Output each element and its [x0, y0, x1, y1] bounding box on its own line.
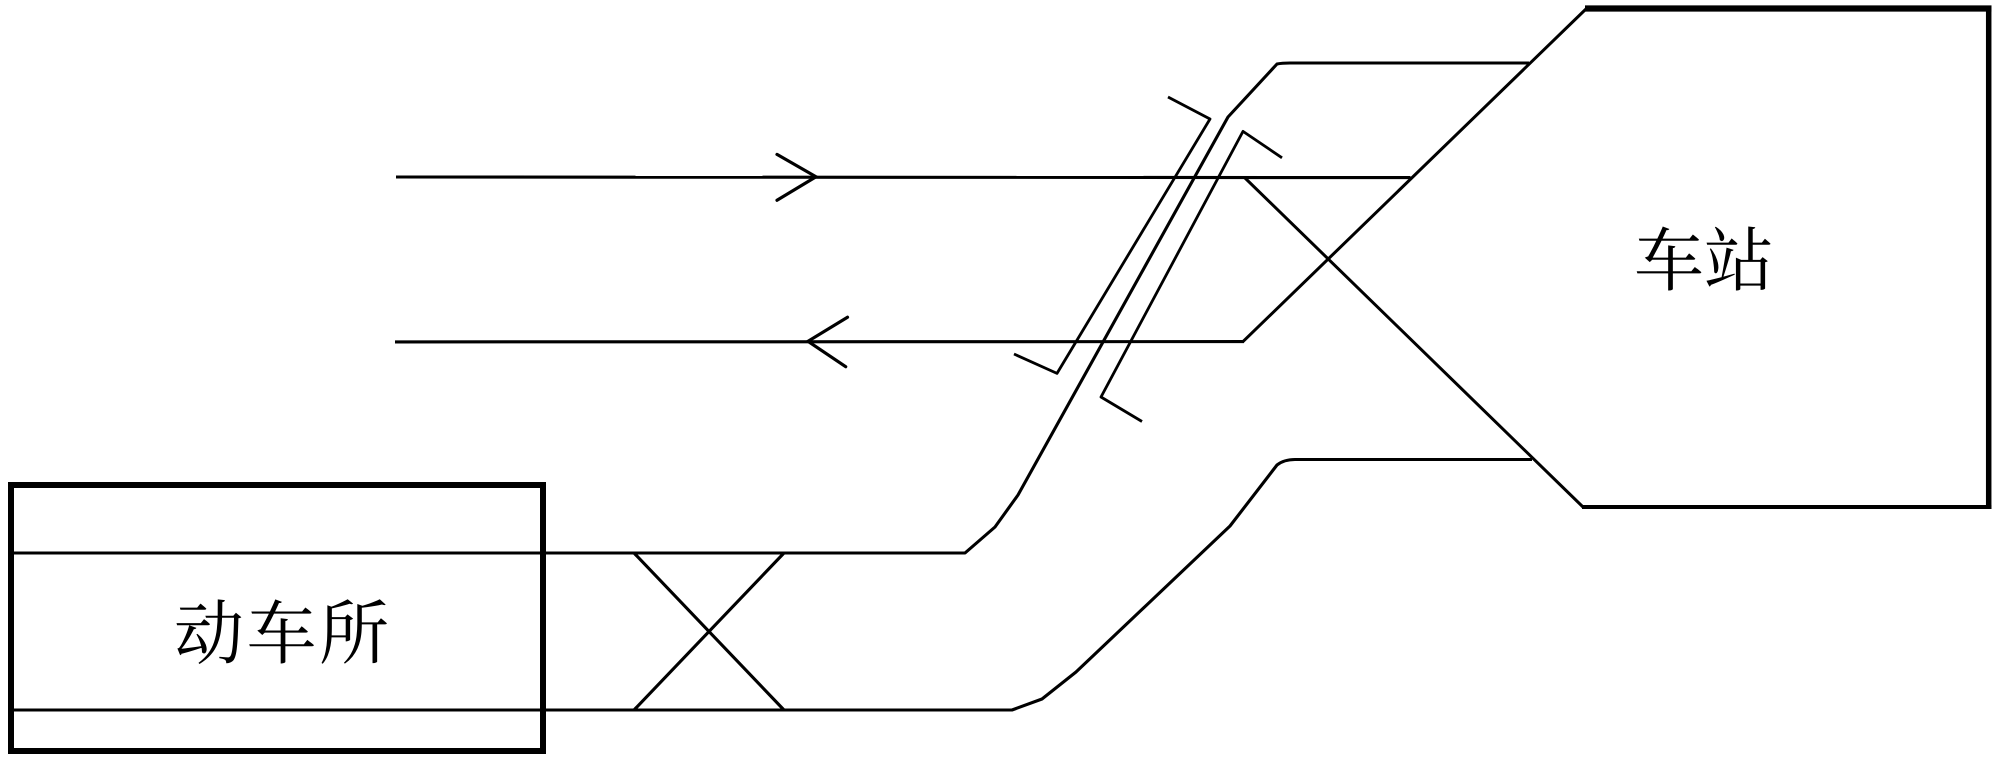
catenary section mark line (right flank) with end ticks: [1101, 131, 1282, 421]
station box right edge: [1986, 9, 1992, 508]
arrow on down mainline (leftward): [808, 317, 848, 367]
depot box (动车所) outline: [11, 485, 543, 751]
station label 车站: [1637, 226, 1771, 290]
wire: crossover diagonal D1 (up mainline to station lower corner): [1245, 178, 1584, 508]
crossover leg (depot, falling): [634, 553, 784, 710]
crossover leg (depot, rising): [634, 553, 784, 710]
wire: down mainline track: [395, 340, 1244, 343]
arrow on up mainline (rightward): [777, 154, 816, 200]
wire: crossover diagonal D2 (down mainline to station upper corner): [1243, 8, 1587, 342]
station box (车站) outline: [1585, 5, 1992, 11]
wire: up mainline track: [396, 175, 1411, 179]
wire: connection line through track (depot to station): [11, 63, 1529, 553]
station box bottom edge: [1582, 505, 1992, 509]
depot label 动车所: [177, 599, 387, 664]
wire: depot lower track route to station: [11, 460, 1532, 711]
catenary section mark line (left flank) with end ticks: [1014, 97, 1210, 373]
